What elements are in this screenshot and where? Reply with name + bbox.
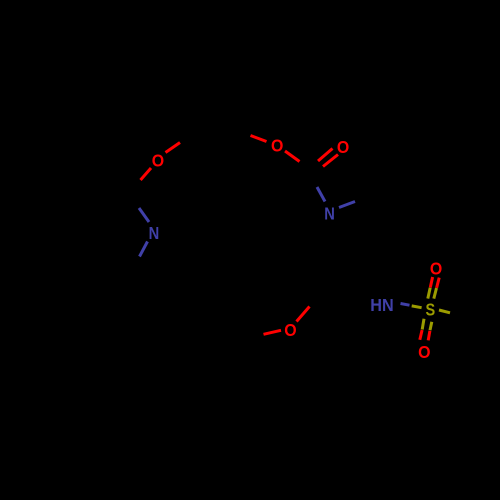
svg-text:O: O xyxy=(271,136,283,156)
wire S=O9 line a red half xyxy=(430,277,432,288)
wire S=O9 line a yellow half xyxy=(428,288,430,299)
wire S=O9 line b yellow half xyxy=(434,288,437,299)
wire C-N4 upper (blue half) xyxy=(139,208,149,222)
wire S-CH3 (yellow half) xyxy=(439,310,450,313)
wire C=O3 double bond line a (red half) xyxy=(318,149,333,162)
wire S=O9 line b red half xyxy=(437,278,440,288)
wire O6-C left (red half) xyxy=(264,330,282,334)
wire O2-C up-left (red half) xyxy=(251,136,267,142)
svg-text:O: O xyxy=(418,342,430,362)
wire O1-C up-right (red half) xyxy=(166,143,181,153)
wire S=O10 line a red half xyxy=(420,330,422,340)
svg-text:O: O xyxy=(284,320,296,340)
wire O6-C up-right (red half) xyxy=(297,307,310,322)
wire S=O10 line b red half xyxy=(428,331,430,341)
wire O1-C down-left (red half) xyxy=(141,168,152,180)
wire O2-C(=O) down-right (red half) xyxy=(285,151,300,162)
svg-text:O: O xyxy=(337,137,349,157)
svg-text:N: N xyxy=(324,204,335,224)
svg-text:HN: HN xyxy=(370,295,393,315)
wire S=O10 line a yellow half xyxy=(422,319,424,330)
wire N5-C up-right (blue half) xyxy=(339,202,355,208)
wire N4-C lower (blue half) xyxy=(140,242,148,257)
wire N7-S yellow half xyxy=(412,306,422,308)
wire C-N5 (blue half) xyxy=(317,187,325,202)
svg-text:O: O xyxy=(152,151,164,171)
svg-text:N: N xyxy=(149,223,160,243)
wire N7-S blue half xyxy=(401,304,410,306)
wire S=O10 line b yellow half xyxy=(430,322,432,330)
wire C=O3 double bond line b (red half) xyxy=(323,155,338,167)
svg-text:O: O xyxy=(430,258,442,278)
svg-text:S: S xyxy=(426,300,436,320)
